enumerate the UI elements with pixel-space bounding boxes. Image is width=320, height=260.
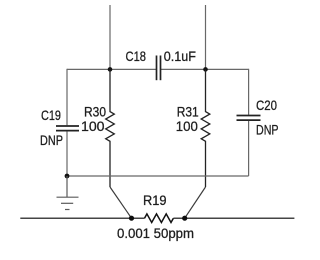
wire: diagonal from R31 bottom to R19 right node [185, 187, 206, 218]
svg-text:100: 100 [81, 119, 105, 134]
wire: left branch above C19 [66, 69, 68, 125]
node B junction dot (R31 top / top net) [203, 67, 208, 72]
node A junction dot (R30 top / top net) [108, 67, 113, 72]
wire: top-right vertical stub into node B [205, 5, 207, 69]
wire: bottom bus, right segment [173, 217, 294, 219]
capacitor C20 [237, 116, 261, 121]
svg-text:100: 100 [176, 119, 198, 134]
wire: top horizontal net, left segment (C19 top to C18 left plate) [67, 68, 156, 70]
node R19 right junction dot [182, 216, 187, 221]
node R19 left junction dot [129, 216, 134, 221]
svg-text:R30: R30 [84, 105, 106, 120]
ground [57, 176, 79, 210]
svg-text:DNP: DNP [256, 123, 279, 138]
svg-text:0.001 50ppm: 0.001 50ppm [117, 226, 194, 241]
svg-text:C20: C20 [256, 98, 277, 113]
svg-text:R19: R19 [143, 193, 167, 208]
wire: right branch below C20 down to lower net corner [248, 121, 250, 176]
wire: diagonal from R30 bottom to R19 left node [110, 187, 132, 218]
node ground junction dot [65, 174, 70, 179]
wire: left branch below C19 down to ground node [66, 131, 68, 176]
wire: lower horizontal net (ground node to C20 bottom) [67, 175, 249, 177]
resistor R19 [145, 214, 174, 223]
wire: top horizontal net, right segment (C18 right plate to C20 top corner) [161, 68, 249, 70]
svg-text:DNP: DNP [40, 133, 63, 148]
resistor R30 [106, 69, 115, 187]
svg-text:C19: C19 [41, 108, 61, 123]
wire: top-left vertical stub into node A [109, 5, 111, 69]
capacitor C19 [56, 126, 79, 131]
svg-text:C18: C18 [126, 49, 147, 64]
resistor R31 [201, 69, 210, 187]
wire: bottom bus, left segment [20, 217, 144, 219]
svg-text:R31: R31 [177, 105, 199, 120]
wire: right branch above C20 [248, 69, 250, 115]
svg-text:0.1uF: 0.1uF [164, 49, 196, 64]
capacitor C18 [157, 56, 161, 81]
